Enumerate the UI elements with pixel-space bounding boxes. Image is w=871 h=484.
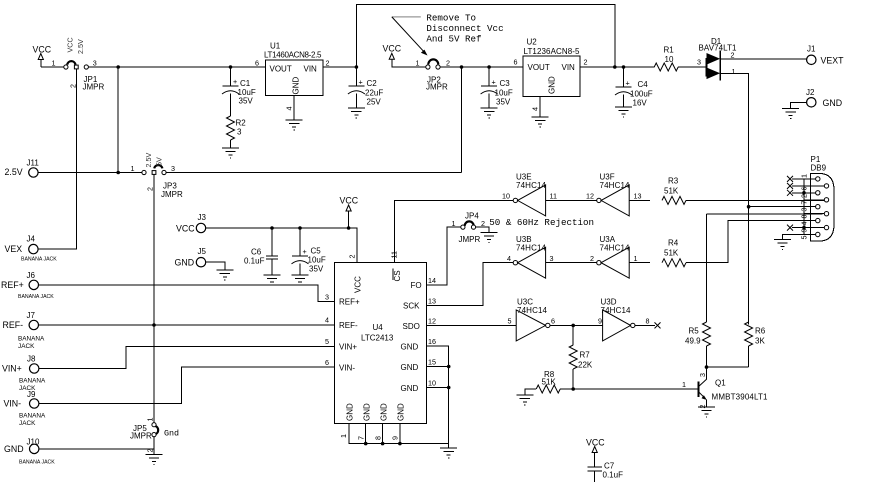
svg-text:GND: GND [823,98,843,108]
svg-text:R5: R5 [689,327,700,336]
node junction on 2.5V rail [116,65,120,69]
svg-text:0.1uF: 0.1uF [603,471,624,480]
inverter U3D 74HC14 [598,298,650,341]
svg-text:3: 3 [93,59,97,68]
svg-text:1: 1 [416,59,420,68]
ground under R2 [222,148,239,158]
svg-text:BANANA: BANANA [19,413,46,420]
resistor R2 3 [227,116,247,148]
svg-text:13: 13 [634,192,642,201]
svg-text:J2: J2 [806,88,815,97]
svg-text:+: + [303,247,307,256]
svg-text:6: 6 [551,317,555,326]
inverter U3F 74HC14 [586,173,642,216]
capacitor C7 0.1uF [588,462,624,483]
svg-text:74HC14: 74HC14 [516,181,547,190]
svg-text:51K: 51K [664,249,679,258]
svg-text:BANANA: BANANA [18,336,45,343]
connector J7 REF- [3,311,46,350]
svg-text:1: 1 [339,434,348,438]
wire DB9 pin6 stub with X [792,185,824,187]
svg-text:CS: CS [393,270,402,281]
svg-text:Remove To: Remove To [426,12,476,23]
svg-text:LTC2413: LTC2413 [361,334,394,343]
svg-text:J5: J5 [198,247,207,256]
svg-text:J3: J3 [198,213,207,222]
svg-text:Gnd: Gnd [164,429,179,439]
svg-text:100uF: 100uF [630,90,653,99]
svg-text:SCK: SCK [403,302,420,311]
svg-text:5: 5 [508,317,512,326]
svg-text:JMPR: JMPR [130,432,152,441]
resistor R6 3K [745,322,766,367]
node VCC (top-left supply) [33,45,52,68]
svg-text:REF+: REF+ [1,280,24,290]
svg-text:49.9: 49.9 [685,337,701,346]
svg-text:5: 5 [800,236,809,240]
svg-text:1: 1 [732,67,736,76]
capacitor C6 0.1uF [244,226,278,275]
svg-text:6: 6 [325,358,329,367]
ground under C3 [481,108,498,118]
svg-text:3: 3 [237,128,242,137]
svg-text:BANANA JACK: BANANA JACK [19,460,55,466]
svg-text:U1: U1 [270,42,281,51]
svg-text:GND: GND [4,444,24,454]
svg-text:JMPR: JMPR [426,83,448,92]
wire J3 VCC net to U4 VCC pin [206,228,357,263]
svg-text:35V: 35V [309,265,324,274]
connector P1 DB9 [800,155,834,241]
svg-text:8: 8 [646,317,650,326]
svg-text:3: 3 [171,164,175,173]
resistor R8 51K with ground [516,370,560,405]
svg-text:10uF: 10uF [308,256,326,265]
wire DB9 pin7 stub [804,199,824,201]
svg-text:VCC: VCC [66,37,75,52]
wire junction down to J11 row [117,67,119,173]
svg-text:VOUT: VOUT [528,63,550,72]
svg-text:4: 4 [531,107,540,111]
svg-text:JP4: JP4 [465,212,479,221]
svg-text:VOUT: VOUT [270,65,292,74]
svg-text:9: 9 [391,436,400,440]
svg-text:3: 3 [698,373,707,377]
connector J3 VCC [176,213,207,234]
op-amp U1 LT1460ACN8-2.5 regulator box [255,42,330,111]
svg-text:VCC: VCC [33,45,52,55]
svg-text:Q1: Q1 [715,379,726,388]
svg-text:VIN+: VIN+ [2,364,22,374]
svg-text:1: 1 [131,164,135,173]
svg-text:2: 2 [446,59,450,68]
svg-text:22uF: 22uF [365,89,383,98]
svg-text:VCC: VCC [586,438,605,448]
svg-text:GND: GND [401,343,419,352]
wire DB9 pin2 stub with X [792,192,816,194]
svg-text:7: 7 [357,436,366,440]
svg-text:51K: 51K [542,378,557,387]
svg-text:VIN-: VIN- [4,399,22,409]
svg-text:2: 2 [590,254,594,263]
IC U4 LTC2413 [325,251,436,440]
svg-text:51K: 51K [664,187,679,196]
connector J5 GND [175,247,234,280]
svg-text:8: 8 [374,436,383,440]
svg-text:6: 6 [255,59,259,68]
svg-text:0.1uF: 0.1uF [244,257,265,266]
svg-text:C5: C5 [311,247,322,256]
transistor Q1 MMBT3904LT1 [682,367,768,417]
svg-text:10: 10 [665,55,674,64]
svg-text:BANANA JACK: BANANA JACK [21,257,57,263]
svg-text:3K: 3K [755,337,765,346]
svg-text:10: 10 [428,379,436,388]
resistor R5 49.9 [685,214,711,367]
svg-text:VEX: VEX [5,244,23,254]
svg-text:R7: R7 [580,351,591,360]
wire U3A input to R4 [629,262,650,264]
svg-text:1: 1 [146,418,155,422]
svg-text:GND: GND [397,403,406,421]
inverter U3C 74HC14 [508,298,556,341]
wire U3B input to U3A output [546,262,597,264]
annotation arrow: Remove To Disconnect Vcc And 5V Ref [392,12,504,55]
svg-text:U2: U2 [527,38,538,47]
svg-text:5V: 5V [155,157,164,166]
wire riser down to JP3 pin3 row [461,67,463,173]
svg-text:VIN+: VIN+ [339,343,357,352]
connector J11 2.5V [5,159,40,178]
svg-text:JACK: JACK [18,343,35,350]
wire U1 VIN to C2 [323,66,356,68]
wire U3C output to U3D input [550,324,603,326]
wire JP3 pin2 down to JP5 [153,175,155,423]
wire U3E input to U3F output [546,199,597,201]
inverter U3B 74HC14 [507,235,554,278]
wire JP2 pin2 to U2 VOUT [440,66,523,68]
wire J6 to U4 REF+ [39,285,335,302]
svg-text:REF+: REF+ [339,298,360,307]
svg-text:C1: C1 [240,79,251,88]
wire D1 pin1 down long riser [720,73,749,324]
svg-text:R1: R1 [664,46,675,55]
resistor R1 10 [654,46,706,72]
capacitor C4 100uF 16V [615,65,653,107]
svg-text:2: 2 [146,187,155,191]
svg-text:GND: GND [380,403,389,421]
svg-text:J10: J10 [27,438,40,447]
wire R4 up to DB9 pin4 [686,221,816,263]
wire DB9 pin8 stub [804,213,824,215]
ground under U4 bus [448,444,450,448]
svg-text:GND: GND [292,77,301,95]
wire U4 GND pins 16,15,10 to bus [427,346,449,444]
svg-text:14: 14 [428,276,436,285]
resistor R4 51K [662,239,686,267]
wire U4 SCK pin13 to U3B output [427,263,514,306]
inverter U3A 74HC14 [590,235,638,278]
svg-text:1: 1 [634,254,638,263]
svg-text:2.5V: 2.5V [144,153,153,168]
svg-text:REF-: REF- [339,321,358,330]
svg-text:J9: J9 [27,390,36,399]
svg-text:VEXT: VEXT [821,56,845,66]
svg-text:13: 13 [428,297,436,306]
capacitor C2 22uF 25V [348,67,383,108]
svg-text:J4: J4 [27,235,36,244]
svg-text:74HC14: 74HC14 [517,306,548,315]
wire J9 to U4 VIN- [39,367,335,403]
svg-text:J6: J6 [27,271,36,280]
svg-text:LT1460ACN8-2.5: LT1460ACN8-2.5 [264,51,322,60]
resistor R7 22K [569,325,593,389]
resistor R3 51K [662,177,686,205]
svg-text:R6: R6 [755,327,766,336]
connector J6 REF+ [1,271,54,300]
svg-text:4: 4 [507,254,511,263]
svg-text:JMPR: JMPR [161,190,183,199]
svg-text:R3: R3 [668,177,679,186]
wire DB9 pin1 stub with X [792,178,816,180]
inverter U3E 74HC14 [502,173,557,216]
svg-text:+: + [492,78,496,87]
svg-text:VCC: VCC [176,224,195,234]
ground under U1 [286,120,303,130]
svg-text:R2: R2 [236,119,247,128]
connector J10 GND [4,438,55,466]
svg-text:And 5V Ref: And 5V Ref [426,34,481,45]
svg-text:22K: 22K [578,361,593,370]
svg-text:2: 2 [326,59,330,68]
svg-text:74HC14: 74HC14 [601,306,632,315]
svg-text:MMBT3904LT1: MMBT3904LT1 [712,393,769,402]
svg-text:BANANA JACK: BANANA JACK [18,294,54,300]
svg-text:+: + [626,79,630,88]
svg-text:1: 1 [452,219,456,228]
svg-text:JMPR: JMPR [459,235,481,244]
svg-text:1: 1 [800,174,809,178]
svg-text:10uF: 10uF [495,89,513,98]
svg-text:16: 16 [428,337,436,346]
wire VCC to JP1 pin1 [41,66,64,68]
svg-text:12: 12 [428,317,436,326]
jumper JP4 JMPR (50/60Hz) [452,212,498,245]
wire U4 FO pin14 to JP4 pin1 [427,227,461,285]
wire R8 to Q1 base [560,388,698,390]
svg-text:C4: C4 [638,80,649,89]
wire U3D output to no-connect [635,324,655,326]
wire R3 to DB9 pin7 [686,199,824,201]
svg-text:C6: C6 [251,248,262,257]
connector J1 VEXT [807,45,845,66]
svg-text:1: 1 [52,59,56,68]
svg-text:1: 1 [682,380,686,389]
capacitor C1 10uF 35V [222,65,256,116]
node junction to JP3 riser [460,65,464,69]
svg-text:R4: R4 [668,239,679,248]
connector J2 GND [782,88,842,119]
connector J4 VEX [5,235,58,263]
jumper JP1 JMPR [52,37,105,91]
svg-text:3: 3 [550,254,554,263]
diode D1 BAV74LT1 [697,37,737,81]
wire J11 to JP3 pin1 [38,172,142,174]
svg-text:2: 2 [698,405,707,409]
wire U4 SDO pin12 to U3C input [427,324,517,326]
node VCC (at JP2) [383,44,427,68]
svg-text:VCC: VCC [340,196,359,206]
svg-text:VIN: VIN [562,63,576,72]
wire top loop C2 to U2 VIN rail [356,5,614,68]
wire U1 pin4 to ground [293,96,295,121]
wire DB9 pin3 row from D1 riser [747,205,751,209]
svg-text:LT1236ACN8-5: LT1236ACN8-5 [524,47,581,56]
svg-text:50 & 60Hz Rejection: 50 & 60Hz Rejection [489,217,594,228]
wire J10 to JP5 ground stem [39,448,154,450]
wire DB9 pin5 to ground [783,235,816,240]
wire U4 bottom GND pins to bus [349,424,449,444]
svg-text:J8: J8 [27,355,36,364]
svg-text:GND: GND [175,258,195,268]
svg-text:3: 3 [325,293,329,302]
capacitor C3 10uF 35V [481,65,513,108]
svg-text:2: 2 [348,255,357,259]
svg-text:GND: GND [401,384,419,393]
svg-text:16V: 16V [633,99,648,108]
svg-text:REF-: REF- [3,320,24,330]
svg-text:VCC: VCC [383,44,402,54]
wire DB9 pin4 stub [804,220,816,222]
svg-text:35V: 35V [239,97,254,106]
svg-text:9: 9 [598,317,602,326]
wire U2 VIN to R1 [580,66,654,68]
ground under C5 [292,275,309,285]
wire D1 pin2 to J1 [720,58,807,60]
wire JP1 pin2 to VEX J4 [38,69,76,249]
svg-text:2.5V: 2.5V [5,167,23,177]
wire DB9 pin8 row to R5 [707,213,823,215]
wire JP1 pin3 to U1 VOUT [88,66,265,68]
connector J9 VIN- [4,390,47,427]
wire U3F input to R3 [629,199,650,201]
svg-text:FO: FO [411,281,422,290]
wire J8 to U4 VIN+ [39,346,335,368]
svg-text:6: 6 [514,58,518,67]
svg-text:11: 11 [550,192,557,201]
svg-text:GND: GND [346,403,355,421]
svg-text:3: 3 [697,58,701,67]
svg-text:2.5V: 2.5V [76,39,85,54]
svg-text:JMPR: JMPR [83,83,105,92]
svg-text:BANANA: BANANA [19,378,46,385]
svg-text:VIN-: VIN- [339,364,355,373]
node VCC arrow above U4 [340,196,359,230]
svg-text:SDO: SDO [403,322,420,331]
op-amp U2 LT1236ACN8-5 reference box [514,38,588,112]
jumper JP3 JMPR [131,153,184,199]
svg-text:25V: 25V [367,98,382,107]
svg-text:74HC14: 74HC14 [600,244,631,253]
svg-text:+: + [233,77,237,86]
capacitor C5 10uF 35V [292,226,326,275]
ground under U2 [532,117,549,127]
svg-text:J11: J11 [27,159,40,168]
wire U4 CS pin11 up to U3E output [395,200,514,262]
wire JP5 pin2 to ground [153,437,155,455]
svg-text:2: 2 [584,58,588,67]
ground under C2 [348,108,365,118]
svg-text:15: 15 [428,358,436,367]
svg-text:GND: GND [363,403,372,421]
svg-text:J1: J1 [807,45,816,54]
svg-text:J7: J7 [27,311,36,320]
svg-text:DB9: DB9 [811,164,827,173]
svg-text:C2: C2 [367,79,378,88]
wire U2 pin4 to ground [539,97,541,118]
svg-text:10: 10 [502,192,510,201]
svg-text:Disconnect Vcc: Disconnect Vcc [426,23,503,34]
svg-text:GND: GND [401,363,419,372]
svg-text:2: 2 [731,51,735,60]
svg-text:74HC14: 74HC14 [516,244,547,253]
wire J7 to U4 REF- [39,324,335,326]
svg-text:74HC14: 74HC14 [600,181,631,190]
svg-text:VIN: VIN [304,65,318,74]
wire R5 bottom junction to R6 bottom [705,365,709,369]
jumper JP2 JMPR [416,59,451,92]
wire DB9 ground bus pins 1-2-9-5 [803,179,805,235]
svg-text:VCC: VCC [354,276,363,293]
svg-text:12: 12 [586,192,594,201]
node VCC at C7 [586,438,605,468]
svg-text:JACK: JACK [19,420,36,427]
wire DB9 pin9 stub with X [792,227,824,229]
svg-text:C7: C7 [604,462,615,471]
jumper JP5 JMPR (Gnd) [130,418,179,453]
svg-text:35V: 35V [496,98,511,107]
svg-text:5: 5 [325,337,329,346]
svg-text:C3: C3 [500,79,511,88]
svg-text:U4: U4 [373,323,384,332]
ground under C4 [615,107,632,117]
ground under C6 [264,275,281,285]
svg-text:+: + [359,78,363,87]
connector J8 VIN+ [2,355,46,393]
svg-text:4: 4 [285,107,294,111]
svg-text:GND: GND [548,76,557,94]
svg-text:4: 4 [325,316,329,325]
wire JP3 pin3 to 5V riser [166,172,461,174]
wire DB9 pin3 stub [804,206,816,208]
